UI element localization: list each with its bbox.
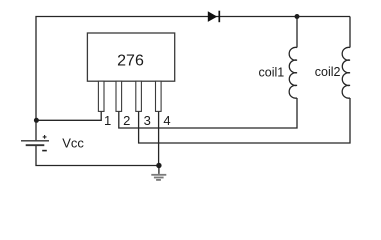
svg-text:2: 2 xyxy=(123,113,130,128)
svg-text:coil2: coil2 xyxy=(315,65,341,79)
svg-text:Vcc: Vcc xyxy=(62,136,84,151)
svg-text:1: 1 xyxy=(104,113,111,128)
svg-text:4: 4 xyxy=(163,113,170,128)
svg-text:276: 276 xyxy=(117,53,144,70)
svg-text:3: 3 xyxy=(144,113,151,128)
svg-text:coil1: coil1 xyxy=(259,65,285,79)
